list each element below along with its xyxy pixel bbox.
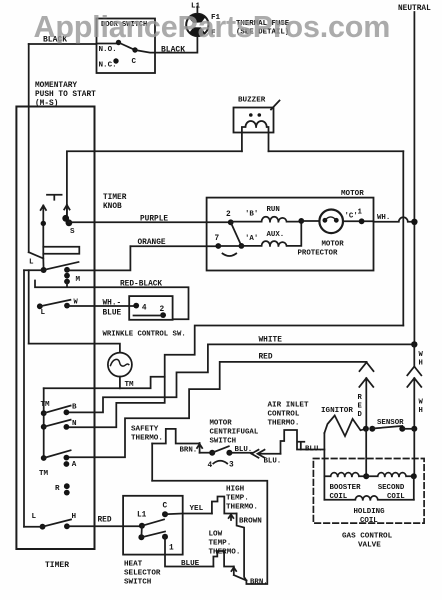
svg-text:BUZZER: BUZZER — [238, 97, 266, 105]
wire brn return bottom — [152, 481, 267, 584]
svg-text:RED: RED — [98, 517, 112, 525]
wire red H to heat selector — [67, 525, 142, 527]
svg-text:SWITCH: SWITCH — [124, 579, 152, 587]
wire WH with hump over riser to neutral — [374, 217, 415, 222]
safety thermo leg down — [151, 444, 153, 481]
label IGNITOR — [321, 407, 353, 415]
svg-text:GAS CONTROL: GAS CONTROL — [342, 533, 393, 541]
label F1 — [211, 14, 221, 22]
label W — [74, 299, 79, 307]
svg-text:MOTOR: MOTOR — [210, 420, 233, 428]
wire neutral lower to arrow end — [407, 344, 421, 375]
red wire arrow end — [360, 362, 374, 371]
motor protector — [319, 210, 343, 234]
heat selector switch box — [123, 496, 183, 555]
wire sensor baseline — [402, 428, 414, 430]
arm N — [44, 420, 71, 427]
wire A stair: bus to TM column and N — [67, 326, 403, 428]
wire protector to node C — [343, 220, 374, 222]
label SENSOR — [377, 419, 404, 427]
svg-text:H: H — [419, 407, 423, 415]
svg-text:YEL: YEL — [190, 505, 204, 513]
svg-text:L1: L1 — [137, 512, 147, 520]
wire buzzer bus from contact S — [67, 151, 242, 216]
label YEL — [190, 505, 204, 513]
svg-text:B: B — [72, 404, 77, 412]
label L1 plug — [191, 3, 201, 11]
svg-text:TM: TM — [39, 470, 49, 478]
svg-text:H: H — [419, 360, 423, 368]
label F2 — [211, 30, 216, 38]
svg-text:HIGH: HIGH — [226, 486, 245, 494]
svg-text:H: H — [72, 513, 77, 521]
svg-text:BLUE: BLUE — [103, 310, 122, 318]
wire M top to orange riser — [67, 246, 130, 270]
node N — [64, 420, 78, 430]
svg-text:M: M — [76, 276, 81, 284]
node 4 centrifugal — [208, 450, 216, 470]
label BLU. valve — [305, 446, 323, 454]
aux winding — [241, 222, 301, 246]
wire yel C to high thermo — [165, 513, 212, 516]
wire blue from node 1 — [165, 537, 213, 567]
svg-text:BLU.: BLU. — [264, 458, 282, 466]
wire TM top to left — [29, 344, 120, 353]
low thermo tick and arm — [231, 567, 246, 581]
node white to neutral — [411, 341, 417, 347]
svg-text:ORANGE: ORANGE — [138, 239, 166, 247]
gas valve dashed box — [313, 459, 424, 524]
label MOTOR PROTECTOR — [298, 241, 345, 258]
svg-text:7: 7 — [215, 235, 220, 243]
wrinkle switch arm — [134, 315, 164, 317]
label TIMER — [45, 561, 69, 570]
knob arrow left — [41, 206, 46, 259]
label BOOSTER COIL — [330, 484, 362, 501]
label GAS CONTROL VALVE — [342, 533, 393, 550]
label WHITE — [259, 337, 283, 345]
wire orange to motor terminal 7 — [130, 245, 218, 247]
motor box — [207, 198, 374, 271]
svg-text:TIMER: TIMER — [45, 561, 69, 570]
svg-text:BROWN: BROWN — [239, 518, 262, 526]
arrow WH continuation down — [407, 378, 421, 429]
wire red-black from M bottom — [35, 281, 189, 320]
svg-text:1: 1 — [358, 209, 363, 217]
heat arm L1 to C — [142, 519, 164, 525]
svg-text:4: 4 — [142, 305, 147, 313]
svg-text:VALVE: VALVE — [358, 542, 381, 550]
buzzer tick top right — [271, 101, 280, 110]
wire 7 to aux junction — [218, 245, 241, 247]
buzzer box — [234, 108, 274, 133]
svg-text:RED: RED — [259, 354, 273, 362]
svg-text:R: R — [55, 485, 60, 493]
svg-text:SECOND: SECOND — [378, 484, 405, 492]
svg-text:KNOB: KNOB — [103, 203, 122, 211]
label 'A' — [245, 235, 258, 243]
watermark AppliancePartsPros.com — [34, 10, 391, 44]
svg-text:S: S — [70, 228, 75, 236]
svg-text:PUSH TO START: PUSH TO START — [35, 91, 96, 99]
timer box — [16, 107, 94, 550]
svg-text:L: L — [29, 259, 34, 267]
svg-text:WH.-: WH.- — [103, 300, 122, 308]
svg-text:HOLDING: HOLDING — [354, 508, 386, 516]
node 7 motor — [215, 235, 222, 249]
label MOTOR — [341, 190, 364, 198]
node 1 heat — [162, 534, 174, 553]
label S — [70, 228, 75, 236]
arm L to M — [44, 262, 79, 270]
svg-text:THERMO.: THERMO. — [209, 549, 241, 557]
node WH on neutral — [411, 219, 417, 225]
node L upper junction — [41, 267, 47, 273]
label TIMER KNOB — [103, 194, 127, 211]
label MOMENTARY PUSH TO START (M-S) — [35, 82, 96, 108]
label BLU. left — [235, 446, 253, 454]
svg-text:E: E — [358, 403, 363, 411]
motor switch arm 2 to aux — [231, 222, 242, 246]
node 2 wrinkle — [160, 306, 167, 318]
heat lower node — [138, 534, 144, 540]
wire TM/B left column — [43, 388, 45, 458]
brn arrow tick — [197, 443, 202, 453]
svg-text:W: W — [419, 351, 424, 359]
svg-text:MOTOR: MOTOR — [341, 190, 364, 198]
wire purple S to motor terminal 2 — [69, 221, 231, 223]
svg-text:2: 2 — [160, 306, 165, 314]
label DOOR SWITCH — [101, 21, 147, 29]
label RUN — [267, 206, 280, 214]
run winding — [231, 217, 302, 222]
node A left — [41, 455, 47, 461]
label WH.-BLUE — [103, 300, 122, 318]
svg-text:PURPLE: PURPLE — [140, 216, 168, 224]
svg-text:BLU.: BLU. — [305, 446, 323, 454]
wire white-blue W to wrinkle switch — [67, 305, 136, 307]
air inlet thermo symbol — [281, 430, 325, 454]
arm B — [44, 406, 71, 414]
wire V2 lower segment to TM top wire — [28, 270, 30, 343]
svg-text:TM: TM — [41, 401, 51, 409]
node C door switch — [132, 47, 138, 66]
svg-text:D: D — [358, 411, 363, 419]
label TM — [125, 381, 135, 389]
svg-text:1: 1 — [169, 545, 174, 553]
label BLUE — [181, 560, 200, 568]
label BRN. — [180, 447, 198, 455]
label HIGH TEMP. THERMO. — [226, 486, 258, 512]
svg-text:AIR INLET: AIR INLET — [268, 402, 309, 410]
svg-text:TEMP.: TEMP. — [226, 495, 249, 503]
svg-text:SAFETY: SAFETY — [131, 426, 159, 434]
valve interior right edge wire — [413, 476, 415, 499]
label BRN. return — [250, 579, 268, 587]
svg-text:MOMENTARY: MOMENTARY — [35, 82, 77, 90]
label 'B' — [245, 211, 258, 219]
svg-text:W: W — [419, 399, 424, 407]
label AUX. — [267, 231, 285, 239]
wire junction to protector — [301, 220, 319, 222]
label L upper — [29, 259, 34, 267]
label WRINKLE CONTROL SW. — [103, 331, 186, 339]
door switch box — [97, 19, 156, 74]
svg-text:CENTRIFUGAL: CENTRIFUGAL — [210, 429, 259, 437]
wire wh drop to second coil junction — [413, 429, 415, 477]
label THERMAL FUSE (SEE DETAIL) — [236, 20, 290, 37]
plug connector L1 with fuse terminals — [186, 14, 208, 36]
label BLU. right — [264, 458, 282, 466]
node B — [64, 404, 78, 416]
high thermo tick — [229, 514, 234, 520]
contact M stacked nodes — [64, 267, 70, 285]
svg-text:BRN.: BRN. — [180, 447, 198, 455]
svg-text:RUN: RUN — [267, 206, 280, 214]
arm A — [44, 450, 71, 458]
buzzer coil — [242, 113, 269, 151]
svg-text:AppliancePartsPros.com: AppliancePartsPros.com — [34, 10, 391, 44]
wire to centrifugal node 4 — [200, 452, 213, 454]
node B left — [41, 410, 47, 416]
svg-text:'B': 'B' — [245, 211, 258, 219]
wire junction west to V1 — [24, 269, 44, 271]
svg-text:AUX.: AUX. — [267, 231, 285, 239]
label BLACK left — [43, 36, 67, 45]
wire neutral vertical — [413, 12, 415, 344]
sensor nodes left — [363, 426, 375, 432]
blu tick — [297, 442, 304, 450]
wire red drop to booster junction — [365, 429, 367, 477]
label TM lower — [39, 470, 49, 478]
svg-text:3: 3 — [229, 462, 234, 470]
timer knob T mark — [47, 195, 62, 200]
svg-text:HEAT: HEAT — [124, 561, 143, 569]
wire left vertical V2 from black bus down into timer — [28, 44, 30, 252]
wire chevron to air inlet — [260, 453, 281, 455]
label SAFETY THERMO. — [131, 426, 163, 443]
label L for W row — [41, 309, 46, 317]
svg-text:WRINKLE CONTROL SW.: WRINKLE CONTROL SW. — [103, 331, 186, 339]
svg-text:LOW: LOW — [209, 531, 223, 539]
node second coil junction — [411, 473, 417, 479]
svg-text:2: 2 — [226, 211, 231, 219]
door switch arm N.O. to C — [119, 43, 136, 51]
sensor arm — [372, 426, 402, 429]
svg-text:RED-BLACK: RED-BLACK — [120, 281, 162, 289]
contact B: TM label — [41, 401, 51, 409]
wire door switch to plug, BLACK — [135, 38, 197, 53]
motor switch arc — [223, 254, 237, 257]
timer motor TM circle — [108, 353, 132, 377]
svg-text:4: 4 — [208, 462, 213, 470]
svg-text:N.C.: N.C. — [99, 62, 117, 70]
contact S blob — [62, 215, 72, 226]
wrinkle control switch box — [129, 296, 172, 320]
label BROWN — [239, 518, 262, 526]
svg-text:BLU.: BLU. — [235, 446, 253, 454]
svg-text:THERMO.: THERMO. — [268, 420, 300, 428]
node L row left — [32, 513, 46, 530]
second coil — [366, 473, 414, 477]
label MOTOR CENTRIFUGAL SWITCH — [210, 420, 259, 446]
knob arrow right — [64, 205, 69, 215]
wire L row to V1 — [24, 526, 43, 528]
wire C red stair — [66, 362, 366, 457]
node N.C. — [99, 58, 119, 69]
label M — [76, 276, 81, 284]
node on left arrow — [41, 221, 46, 226]
svg-text:C: C — [163, 503, 168, 511]
centrifugal arm — [212, 446, 229, 453]
wire into N.O. — [97, 43, 119, 45]
node H — [64, 513, 77, 529]
label BUZZER — [238, 97, 266, 105]
svg-text:MOTOR: MOTOR — [322, 241, 345, 249]
label HEAT SELECTOR SWITCH — [124, 561, 161, 587]
wire buzzer bus right to riser — [269, 150, 404, 152]
svg-text:'C': 'C' — [345, 213, 358, 221]
svg-text:BRN.: BRN. — [250, 579, 268, 587]
arm L-H — [43, 520, 72, 527]
svg-text:THERMO.: THERMO. — [226, 504, 258, 512]
node A pair — [64, 455, 77, 469]
svg-text:BOOSTER: BOOSTER — [330, 484, 362, 492]
wire brown drop — [237, 514, 247, 581]
safety thermo symbol — [152, 429, 199, 444]
label BLACK right — [161, 46, 185, 55]
label AIR INLET CONTROL THERMO. — [268, 402, 309, 428]
svg-text:N: N — [72, 420, 77, 428]
node aux junction — [239, 243, 245, 249]
label HOLDING COIL — [354, 508, 386, 525]
valve interior left edge wire — [323, 433, 325, 500]
label LOW TEMP. THERMO. — [209, 531, 241, 557]
svg-text:A: A — [72, 461, 77, 469]
contact R spare nodes — [55, 483, 70, 495]
label W H lower — [419, 399, 424, 416]
label PURPLE — [140, 216, 168, 224]
svg-text:WHITE: WHITE — [259, 337, 283, 345]
high temp thermo symbol — [212, 497, 237, 514]
wire black bus top-left — [29, 43, 97, 45]
label RED bus — [259, 354, 273, 362]
holding coil on bottom wire — [324, 496, 413, 500]
node W — [64, 303, 70, 309]
label SECOND COIL — [378, 484, 406, 501]
diag V2 to arrow line — [29, 252, 44, 270]
label W H upper — [419, 351, 424, 368]
label RED — [98, 517, 112, 525]
svg-text:SWITCH: SWITCH — [210, 438, 237, 446]
svg-text:WH.: WH. — [377, 214, 390, 222]
wire left vertical V1 down to L row — [23, 270, 25, 527]
node booster junction — [363, 473, 369, 479]
svg-text:CONTROL: CONTROL — [268, 411, 300, 419]
svg-text:PROTECTOR: PROTECTOR — [298, 250, 338, 258]
node 2 motor — [226, 211, 234, 225]
wire A branch to TM/B column — [44, 377, 165, 389]
svg-text:TEMP.: TEMP. — [209, 540, 232, 548]
svg-text:N.O.: N.O. — [99, 46, 117, 54]
red arrow continuation down — [359, 378, 373, 429]
wire riser x403 down to stair bus — [402, 151, 404, 325]
node C motor — [345, 209, 365, 225]
node N left — [41, 424, 47, 430]
cam follower step — [43, 247, 79, 254]
svg-text:SELECTOR: SELECTOR — [124, 570, 161, 578]
svg-text:C: C — [132, 58, 137, 66]
label RED-BLACK — [120, 281, 162, 289]
node 3 centrifugal — [226, 450, 234, 470]
svg-text:BLUE: BLUE — [181, 560, 200, 568]
svg-text:IGNITOR: IGNITOR — [321, 407, 353, 415]
svg-text:COIL: COIL — [360, 517, 378, 525]
svg-text:L: L — [32, 513, 37, 521]
node C heat — [162, 503, 168, 518]
svg-text:'A': 'A' — [245, 235, 258, 243]
label WH. — [377, 214, 390, 222]
wire TM bottom drop — [119, 377, 121, 389]
svg-text:L: L — [41, 309, 46, 317]
node run/aux junction — [298, 218, 304, 224]
low temp thermo symbol — [213, 551, 233, 567]
wire L1 to lower node — [140, 526, 143, 538]
label NEUTRAL — [398, 5, 431, 13]
arm W row — [40, 300, 71, 307]
svg-text:BLACK: BLACK — [161, 46, 185, 55]
svg-text:TIMER: TIMER — [103, 194, 127, 202]
wire L1 lead above plug — [196, 7, 198, 15]
sensor nodes right — [399, 426, 417, 432]
booster coil — [324, 473, 366, 477]
svg-text:R: R — [358, 394, 363, 402]
heat arm lower to 1 — [141, 532, 165, 538]
disconnect chevrons — [252, 450, 265, 458]
contact W left node — [37, 303, 43, 309]
wire blu from node 3 — [229, 452, 252, 454]
wire B white stair — [66, 344, 414, 412]
node L1 heat — [137, 512, 147, 529]
svg-text:THERMO.: THERMO. — [131, 435, 163, 443]
label ORANGE — [138, 239, 166, 247]
svg-text:SENSOR: SENSOR — [377, 419, 404, 427]
node N.O. — [99, 40, 122, 54]
node 4 wrinkle — [133, 303, 147, 313]
centrifugal action arc — [213, 461, 227, 464]
ignitor element — [324, 416, 365, 437]
label R E D vertical — [358, 394, 363, 419]
